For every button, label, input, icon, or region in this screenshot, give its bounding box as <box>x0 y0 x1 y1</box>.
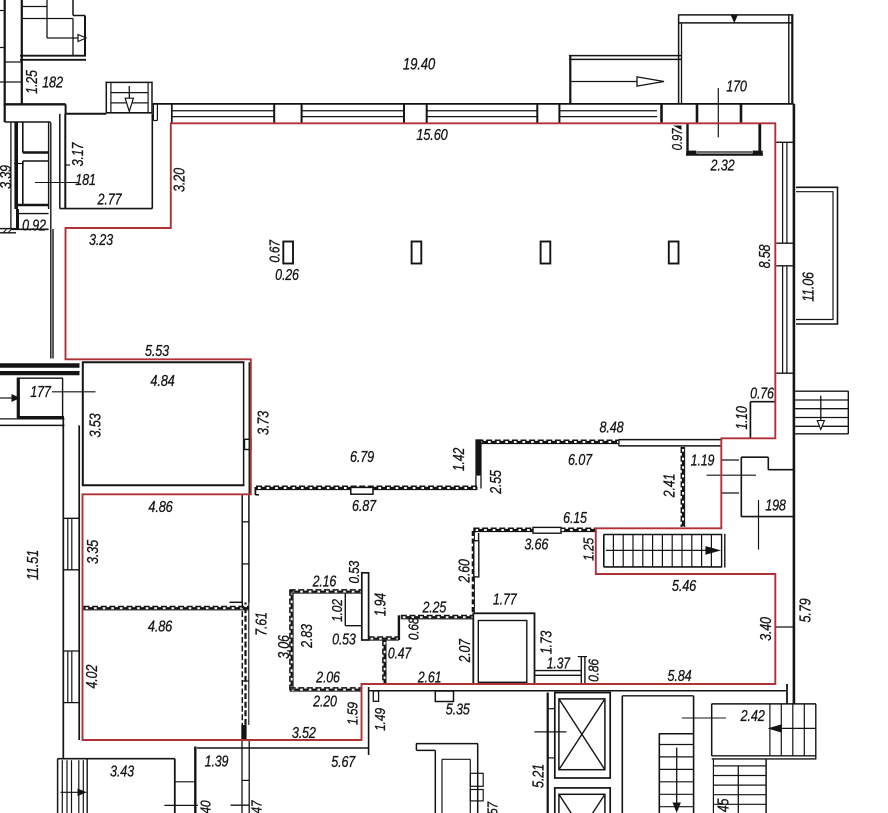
niche walls 198 area <box>740 457 742 517</box>
window glazing lines <box>172 110 274 112</box>
door tick y62 <box>5 61 22 63</box>
ramp top double wall <box>569 55 682 57</box>
stair 5.46 bottom wall <box>604 566 722 568</box>
svg-text:1.19: 1.19 <box>691 451 715 469</box>
room 177 right wall <box>62 378 64 418</box>
svg-text:1.42: 1.42 <box>450 447 468 471</box>
stairwell 182 step wall <box>72 0 74 16</box>
wall notch small <box>373 691 378 701</box>
svg-text:1.37: 1.37 <box>547 654 571 672</box>
shaft box inside bathroom <box>344 593 346 626</box>
right entrance stair treads <box>795 390 848 392</box>
svg-text:3.06: 3.06 <box>275 635 293 659</box>
window start bar <box>171 104 173 123</box>
elevator block left wall <box>547 693 549 813</box>
svg-text:0.97: 0.97 <box>669 128 686 151</box>
room 2.42 stair edge <box>815 704 817 759</box>
lower stair rail <box>737 766 739 813</box>
svg-text:198: 198 <box>765 497 786 515</box>
svg-text:2.47: 2.47 <box>248 799 265 813</box>
svg-text:11.51: 11.51 <box>25 550 43 580</box>
svg-text:1.94: 1.94 <box>371 593 389 617</box>
column 1 <box>283 242 293 264</box>
step wall x399 <box>398 615 400 640</box>
svg-text:1.77: 1.77 <box>493 590 518 608</box>
partition end bar at red line <box>241 725 246 741</box>
room 4.84 top wall <box>82 361 245 363</box>
stairwell 182 inner wall <box>46 0 48 38</box>
svg-text:2.06: 2.06 <box>315 668 340 686</box>
svg-text:0.86: 0.86 <box>585 659 602 682</box>
room 170 left double wall <box>678 14 680 104</box>
vestibule bottom wall <box>686 154 763 156</box>
door leaf 2.60 <box>474 541 479 577</box>
svg-text:1.59: 1.59 <box>344 702 361 725</box>
svg-text:5.67: 5.67 <box>331 754 356 772</box>
duct niche on wall <box>245 439 252 449</box>
wall x87 <box>86 759 88 813</box>
svg-text:4.84: 4.84 <box>150 373 174 391</box>
room 170 right wall <box>788 14 790 104</box>
elevator wall ticks <box>548 708 555 710</box>
notch wall 0.76 <box>749 402 751 439</box>
right window glazing <box>782 142 784 243</box>
svg-text:2.07: 2.07 <box>456 638 474 663</box>
vestibule right wall <box>758 124 761 153</box>
room 4.84 bottom wall <box>82 484 245 486</box>
room 170 top double wall <box>679 14 793 16</box>
svg-text:1.73: 1.73 <box>537 630 555 654</box>
solid wall 8.48 east part <box>619 439 722 441</box>
partition wall 6.87 <box>256 485 478 487</box>
entry room bump 2 <box>470 790 483 801</box>
stair 5.46 rail arrow <box>606 549 710 551</box>
bottom-left stair arrow <box>61 791 80 793</box>
room 181 bottom and right walls <box>60 208 153 210</box>
partition wall 8.48 west part <box>478 439 619 441</box>
storage block right wall <box>48 123 50 210</box>
svg-text:8.58: 8.58 <box>756 244 774 268</box>
stair treads bottom-left <box>61 760 63 813</box>
corridor walls below 177 <box>0 418 65 420</box>
svg-text:181: 181 <box>75 172 96 190</box>
stair treads <box>111 92 148 94</box>
room 3.43 top wall <box>58 758 175 760</box>
dim arrow 0.97 <box>673 126 682 131</box>
wall x175 <box>174 759 176 813</box>
corridor wall below red <box>369 690 787 692</box>
svg-text:170: 170 <box>726 78 747 96</box>
balcony 11.06 inner <box>796 192 833 320</box>
stub wall y602 <box>230 601 243 603</box>
room 2.42 top wall <box>712 703 817 705</box>
svg-text:3.40: 3.40 <box>757 617 775 641</box>
svg-text:1.02: 1.02 <box>329 599 346 622</box>
partition wall 2.41 <box>680 447 682 527</box>
room 177 left wall <box>17 378 20 418</box>
stair 5.46 treads <box>612 535 614 567</box>
svg-text:4.02: 4.02 <box>84 665 102 689</box>
wall x242-249 double <box>241 494 243 602</box>
tick y460 <box>721 459 739 461</box>
svg-text:6.87: 6.87 <box>352 498 377 516</box>
bathroom dashed walls <box>290 589 362 591</box>
svg-text:1.39: 1.39 <box>205 752 229 770</box>
room 177 top wall <box>17 377 63 379</box>
svg-text:6.07: 6.07 <box>568 452 593 470</box>
stairwell 182 upper landing lines <box>23 6 47 8</box>
tick y627 <box>775 626 794 628</box>
svg-text:57: 57 <box>484 801 501 813</box>
room 198 leader line <box>758 500 760 550</box>
ramp left wall <box>569 55 571 104</box>
lower stair sides <box>712 759 714 813</box>
left outer wall lines <box>62 419 64 759</box>
svg-text:5.53: 5.53 <box>145 343 169 361</box>
tick y805 right <box>231 804 250 806</box>
svg-text:0.67: 0.67 <box>266 240 283 263</box>
storage block top wall <box>5 121 51 123</box>
wall vertical x22 <box>21 0 23 104</box>
svg-text:1.25: 1.25 <box>23 70 41 94</box>
svg-text:2.32: 2.32 <box>710 157 735 175</box>
svg-text:3.39: 3.39 <box>0 165 14 189</box>
solid pier x478 <box>475 439 481 475</box>
partition 0.47 vertical <box>382 640 384 684</box>
right window ticks <box>776 141 794 143</box>
svg-text:2.60: 2.60 <box>455 559 473 583</box>
vestibule corner pads <box>686 151 696 156</box>
tick y475 <box>707 474 757 476</box>
svg-text:2.42: 2.42 <box>740 708 765 726</box>
long tick y732 <box>534 731 566 733</box>
step connector at partition west end <box>254 487 256 495</box>
svg-text:2.61: 2.61 <box>417 668 442 686</box>
red apartment outline <box>66 123 776 740</box>
svg-text:8.48: 8.48 <box>600 419 624 437</box>
svg-text:45: 45 <box>714 798 732 812</box>
stair 5.46 right double wall <box>721 534 723 568</box>
stairwell 182 bottom double wall <box>20 55 86 57</box>
entry room top wall <box>416 743 478 745</box>
wall notch 5.35 <box>435 691 453 702</box>
T wall 1.37 horizontal <box>535 670 582 672</box>
svg-text:0.47: 0.47 <box>388 644 412 662</box>
partition wall 2.60 dashed <box>472 531 474 614</box>
lower stair treads <box>713 765 766 767</box>
room 2.42 left wall <box>711 704 713 756</box>
entry room step <box>415 744 417 751</box>
tick y805 left <box>164 804 198 806</box>
svg-text:3.20: 3.20 <box>171 168 189 192</box>
svg-text:5.21: 5.21 <box>530 764 548 788</box>
right entrance stair edge <box>847 391 849 434</box>
column 4 <box>669 242 679 264</box>
svg-text:7.61: 7.61 <box>252 612 270 636</box>
vestibule inner sill line <box>697 151 752 153</box>
wall under red x368 <box>368 687 370 755</box>
svg-text:5.84: 5.84 <box>668 668 692 686</box>
svg-text:0.76: 0.76 <box>750 384 774 402</box>
tick y163 <box>14 163 24 165</box>
wall below red x242-249 <box>241 741 243 813</box>
T wall 0.86 vertical <box>580 657 582 685</box>
svg-text:0.92: 0.92 <box>22 216 46 234</box>
stair box inner rails <box>110 82 112 112</box>
partition between rooms 4.86 <box>84 606 250 608</box>
plumbing shaft bar <box>362 573 369 640</box>
svg-text:1.49: 1.49 <box>372 708 389 731</box>
wall jog at x65 <box>65 104 67 114</box>
svg-text:4.86: 4.86 <box>148 499 173 517</box>
right entrance stair arrow <box>820 396 822 424</box>
tick y656 <box>578 656 587 658</box>
room 4.84 left wall <box>82 362 84 485</box>
entry room bump 1 <box>470 773 483 786</box>
tick y782 <box>175 781 196 783</box>
column 3 <box>541 242 551 264</box>
room 181 leader line <box>35 182 78 184</box>
svg-text:2.20: 2.20 <box>312 692 337 710</box>
stair 5.46 top wall <box>604 534 722 536</box>
entry room right wall <box>477 744 479 813</box>
stair box walls <box>105 82 107 114</box>
balcony 11.06 outer <box>796 187 838 324</box>
svg-text:3.35: 3.35 <box>85 540 103 564</box>
room 170 top tick arrow <box>732 16 738 23</box>
svg-text:1.10: 1.10 <box>732 406 750 430</box>
svg-text:2.16: 2.16 <box>312 572 337 590</box>
wall ticks <box>242 521 249 523</box>
svg-text:0.40: 0.40 <box>197 800 214 813</box>
svg-text:19.40: 19.40 <box>403 55 436 74</box>
room 170 leader line <box>717 88 719 137</box>
shaft box above red <box>473 613 534 684</box>
column 2 <box>412 242 422 264</box>
svg-text:0.68: 0.68 <box>405 617 422 640</box>
svg-text:5.35: 5.35 <box>446 701 470 719</box>
partition wall 3.66/6.15 <box>474 527 596 529</box>
room 4.84 right double wall <box>243 362 245 485</box>
partition wall x245 dashed lower <box>241 603 243 726</box>
stairwell 182 direction arrow <box>47 37 78 39</box>
tick y780 <box>242 779 249 781</box>
svg-text:6.15: 6.15 <box>563 509 587 527</box>
down stair arrow <box>676 748 678 804</box>
hatched wall end bottom-left <box>0 228 16 230</box>
svg-text:0.53: 0.53 <box>332 630 356 648</box>
top outer wall line <box>153 103 794 105</box>
svg-text:3.66: 3.66 <box>524 536 548 554</box>
svg-text:3.23: 3.23 <box>89 232 113 250</box>
storage room upper box <box>22 123 24 153</box>
room 0.92 left wall <box>16 209 19 229</box>
door threshold in 6.87 wall <box>351 487 373 494</box>
room 2.42 leader line <box>682 717 726 719</box>
entry room left wall <box>434 750 436 813</box>
door jamb 2.60 <box>478 533 480 541</box>
room 181 left wall double <box>59 114 61 209</box>
down stair treads <box>659 744 693 746</box>
room 2.42 rail arrow left <box>772 727 816 729</box>
storage room lower box <box>23 160 48 162</box>
wall x51 double below <box>50 229 52 359</box>
elevator 1 shaft <box>555 693 610 778</box>
svg-text:11.06: 11.06 <box>799 272 817 302</box>
svg-text:2.55: 2.55 <box>487 470 505 495</box>
entry arrow to 177 <box>0 397 13 399</box>
corridor second wall <box>622 695 693 697</box>
down stair left wall <box>658 734 660 813</box>
room 2.42 stair treads <box>769 704 771 756</box>
room 2.42 bottom double wall <box>712 755 816 757</box>
left edge ticks <box>0 10 5 12</box>
svg-text:2.41: 2.41 <box>660 474 678 499</box>
elevator 2 shaft <box>555 788 610 813</box>
svg-text:0.53: 0.53 <box>346 560 363 583</box>
wall left outer vertical <box>4 0 6 122</box>
svg-text:3.43: 3.43 <box>110 763 134 781</box>
svg-text:2.77: 2.77 <box>97 191 123 209</box>
wall end cap <box>152 104 154 121</box>
thick wall bands left <box>0 363 80 368</box>
room 0.92 top wall <box>17 213 49 215</box>
tick y493 <box>721 492 739 494</box>
svg-text:3.17: 3.17 <box>69 142 87 167</box>
tick on room181 wall <box>65 164 70 166</box>
right outer wall <box>793 104 796 704</box>
window mullion bars <box>273 104 275 122</box>
west cap of 3.66 wall <box>473 528 476 533</box>
svg-text:1.25: 1.25 <box>580 537 597 560</box>
svg-text:182: 182 <box>42 74 63 92</box>
entry room inner box <box>441 759 443 813</box>
tick y681 <box>242 680 249 682</box>
porch wall stubs <box>660 104 663 122</box>
dim line 1.25 tick <box>0 81 22 83</box>
stair down arrow <box>128 86 130 110</box>
corridor vertical walls <box>621 696 623 813</box>
corridor wall y748 <box>197 747 369 749</box>
stair 5.46 left cap <box>603 535 605 567</box>
svg-text:15.60: 15.60 <box>416 127 447 145</box>
svg-text:3.52: 3.52 <box>292 725 316 743</box>
door threshold in 6.15 wall <box>533 527 561 533</box>
svg-text:0.26: 0.26 <box>275 266 299 284</box>
left window ticks <box>63 517 79 519</box>
corridor top wall <box>66 113 107 115</box>
svg-text:2.25: 2.25 <box>422 598 447 616</box>
vestibule left wall <box>686 124 688 153</box>
svg-text:4.86: 4.86 <box>148 618 173 636</box>
svg-text:3.73: 3.73 <box>255 411 273 435</box>
svg-text:6.79: 6.79 <box>350 449 374 467</box>
partition wall 2.25 <box>401 615 473 617</box>
room 3.43 left wall <box>57 759 59 813</box>
wall top-left main horizontal <box>4 103 66 105</box>
svg-text:2.83: 2.83 <box>298 624 316 649</box>
wall x195 <box>194 747 196 813</box>
room 0.92 bottom wall <box>11 228 49 230</box>
partition 0.53 horizontal <box>369 636 399 638</box>
svg-text:5.46: 5.46 <box>672 578 697 596</box>
svg-text:3.53: 3.53 <box>87 413 105 437</box>
stairwell 182 lower rail <box>72 19 74 57</box>
jog wall below pier <box>475 476 477 489</box>
room 177 bottom wall <box>17 416 64 419</box>
storage block outer left wall <box>10 122 12 229</box>
svg-text:177: 177 <box>30 384 52 402</box>
storage block thick left wall <box>14 122 18 209</box>
room 177 leader line <box>52 391 96 393</box>
svg-text:5.79: 5.79 <box>797 598 815 622</box>
down stair top wall <box>659 733 694 735</box>
wall x787 <box>786 684 788 704</box>
left window glazing <box>67 518 69 570</box>
ramp direction arrow <box>571 81 651 83</box>
